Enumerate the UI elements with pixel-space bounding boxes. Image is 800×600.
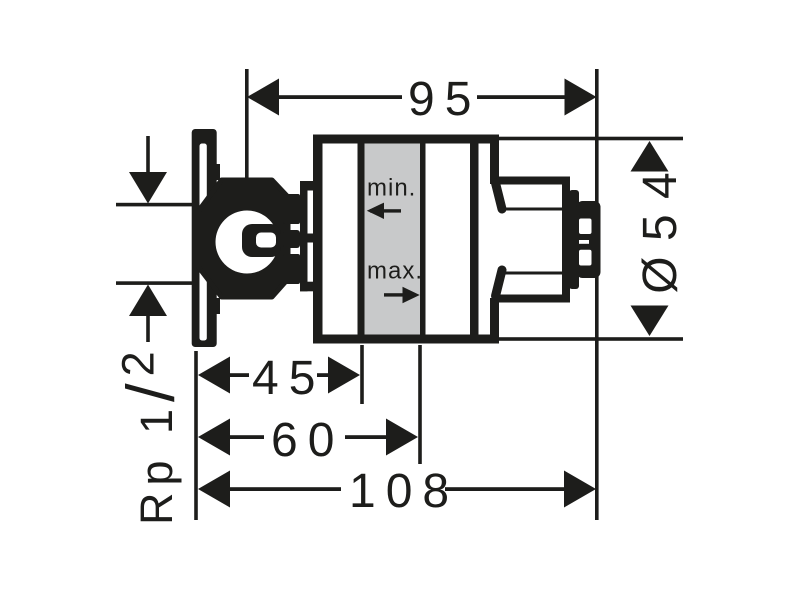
bonnet top edge [492,177,570,185]
left thread dim: up arrow [129,285,167,317]
svg-text:max.: max. [367,258,423,285]
svg-text:Ø 5 4: Ø 5 4 [634,171,687,293]
bonnet bottom edge [492,295,570,303]
wall flange plate [192,129,220,347]
valve body right cap wall lower [490,298,499,344]
dimension 108: line segments [229,487,341,491]
union nut right tab upper [283,194,300,224]
svg-text:108: 108 [349,465,459,518]
union nut bore (white circle) [216,211,279,274]
dimension 45: left arrow [198,357,230,394]
spindle body [577,201,601,278]
dimension 95: right arrow [565,79,597,116]
spindle flange bar [569,190,579,289]
min arrow [367,203,401,219]
dimension 108: left arrow [198,471,230,508]
valve body inner right wall [470,135,479,344]
bottom dims: extension line at 45 [360,345,364,404]
gray band right divider [420,144,426,335]
svg-text:min.: min. [367,175,416,202]
dimension 95: right long extension line [595,69,599,520]
dimension 45: right arrow [328,357,360,394]
max arrow [384,287,420,303]
valve body right cap wall upper [490,135,499,185]
svg-text:45: 45 [252,352,325,405]
spindle notch lower [579,250,592,266]
bonnet inner top line [504,208,577,211]
dia 54: top arrow [631,141,669,172]
bottom dims: left extension line [194,351,198,520]
svg-text:60: 60 [271,414,344,467]
left thread dim: upper horizontal line [116,203,194,207]
bonnet bottom chamfer [496,270,503,296]
bottom dims: extension line at 60 [418,345,422,464]
adapter bracket between nut and body [283,181,316,291]
dimension 95: left arrow [247,79,279,116]
dimension 108: right arrow [564,471,596,508]
valve body bottom wall [313,335,499,344]
valve body top wall [313,135,499,144]
bonnet inner bottom line [504,272,577,275]
svg-text:95: 95 [408,73,481,126]
left thread dim: lower horizontal line [116,281,194,285]
cartridge gray band [365,144,421,335]
union nut right tab lower [283,254,300,284]
dimension 95: line left segment [277,95,402,99]
gray band left divider [358,144,365,335]
left thread dim: lower vertical line [146,316,150,342]
dimension 60: line segments [229,435,264,439]
dia 54: bottom arrow [631,306,669,337]
spindle slot notch [256,233,276,248]
dia 54: bottom extension line [499,337,683,341]
spindle notch upper [579,219,592,235]
bonnet right wall [562,177,570,303]
dimension 60: left arrow [198,419,230,456]
spindle slot inside nut [242,224,281,257]
dimension 60: right arrow [386,419,418,456]
bonnet top chamfer [496,183,503,209]
left thread dim: down arrow [129,172,167,204]
left thread dim: upper vertical line [146,136,150,173]
dimension 95: line right segment [477,95,565,99]
spindle groove dash [579,240,589,244]
dimension 45: line segments [229,373,249,377]
dimension 95: left extension line [245,69,249,180]
dia 54: top extension line [499,137,683,141]
valve body left wall [313,135,323,344]
union nut body [199,180,289,297]
